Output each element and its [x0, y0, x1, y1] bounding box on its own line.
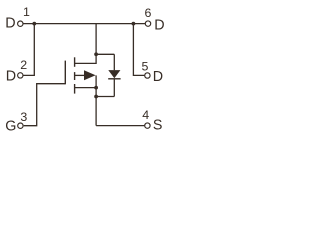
svg-text:G: G [5, 119, 16, 135]
wire top drain rail (pin1 to pin6) [23, 23, 145, 25]
svg-text:3: 3 [20, 110, 27, 124]
D1 anode lead [113, 54, 115, 70]
Q1 body lead [75, 74, 86, 76]
body diode D1 [108, 54, 120, 96]
wire source lead [75, 87, 97, 89]
svg-text:D: D [153, 69, 163, 85]
D1 triangle [108, 70, 120, 78]
wire source net to pin4 [96, 125, 144, 127]
junction dot diode bottom node [94, 95, 98, 99]
svg-text:4: 4 [142, 108, 149, 122]
wire gate lead from pin3 [24, 84, 66, 126]
Q1 gate bar [64, 61, 66, 85]
Q1 channel dash body [74, 72, 76, 80]
svg-text:D: D [154, 18, 164, 34]
D1 cathode lead [113, 79, 115, 97]
svg-text:6: 6 [145, 6, 152, 20]
Q1 channel dash drain [74, 57, 76, 67]
pin 2 terminal circle [18, 73, 23, 78]
wire pin2 to drain rail [23, 24, 34, 76]
pin 4 terminal circle [145, 123, 150, 128]
junction dot source lead node [94, 86, 98, 90]
svg-text:1: 1 [23, 5, 30, 19]
wire pin5 drop from drain rail [133, 24, 144, 76]
transistor Q1 N-channel MOSFET [65, 57, 95, 93]
pin 3 terminal circle [18, 123, 23, 128]
junction dot on top rail right [132, 22, 136, 26]
wire source rail vertical [95, 75, 97, 125]
pin 6 terminal circle [145, 21, 150, 26]
svg-text:D: D [5, 16, 15, 32]
wire source net to diode bottom [96, 96, 114, 98]
Q1 channel dash source [74, 84, 76, 94]
svg-text:5: 5 [142, 60, 149, 74]
svg-text:D: D [6, 68, 16, 84]
wire drain rail vertical to MOSFET drain [75, 24, 97, 64]
pin 5 terminal circle [145, 73, 150, 78]
pin 1 terminal circle [18, 21, 23, 26]
junction dot drain/diode node [94, 52, 98, 56]
junction dot on top rail left [32, 22, 36, 26]
svg-text:2: 2 [20, 58, 27, 72]
Q1 body arrow [84, 70, 96, 80]
wire node drain to diode cathode-top [96, 53, 114, 55]
D1 cathode bar [108, 78, 120, 80]
svg-text:S: S [153, 118, 163, 134]
